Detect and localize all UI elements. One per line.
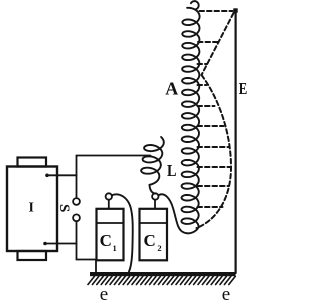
dashed amplitude line 2 <box>198 63 208 65</box>
dashed amplitude line 8 <box>198 185 229 187</box>
spark gap S upper ball <box>73 198 80 205</box>
label C2 <box>143 231 161 253</box>
terminal knob C1 <box>106 193 112 209</box>
svg-text:e: e <box>222 284 230 305</box>
dashed amplitude line 5 <box>198 125 224 127</box>
antenna wire E <box>235 12 237 273</box>
svg-text:C: C <box>143 231 155 250</box>
dashed amplitude line 1 <box>198 41 219 43</box>
earth plate <box>90 272 236 276</box>
spark gap S lower ball <box>73 214 80 221</box>
svg-text:C: C <box>100 231 112 250</box>
svg-text:S: S <box>56 204 72 212</box>
svg-text:e: e <box>100 284 108 305</box>
svg-text:A: A <box>165 79 178 99</box>
label C1 <box>100 231 117 253</box>
wire C2 knob to antenna coil bottom <box>159 194 199 233</box>
svg-text:2: 2 <box>157 243 161 253</box>
wire I top terminal to spark-gap lead <box>47 174 77 176</box>
dashed amplitude line 3 <box>198 84 207 86</box>
antenna coil A <box>181 1 199 227</box>
terminal dot I top <box>45 174 49 178</box>
terminal knob C2 <box>152 193 158 209</box>
dashed amplitude line 7 <box>198 166 232 168</box>
dashed amplitude line 4 <box>198 105 215 107</box>
induction coil I <box>7 158 57 261</box>
svg-text:I: I <box>29 200 34 215</box>
dashed amplitude line 9 <box>198 206 223 208</box>
wire spark gap to inductor L <box>77 155 151 157</box>
node: antenna top connection square <box>233 8 237 12</box>
wire I bottom terminal to spark-gap lead <box>45 243 77 245</box>
inductor L <box>141 137 164 185</box>
terminal dot I bottom <box>43 242 47 246</box>
wire upper spark-gap lead <box>76 156 78 199</box>
wire C1 knob to earth plate <box>112 194 133 271</box>
svg-text:E: E <box>239 79 248 98</box>
wire lower spark-gap lead to earth plate <box>77 221 97 272</box>
dashed potential envelope lower arc <box>197 75 232 228</box>
dashed line coil A top to antenna wire E <box>200 10 233 12</box>
earth hatching <box>88 276 235 284</box>
condenser C2 <box>140 209 168 260</box>
svg-text:1: 1 <box>112 243 116 253</box>
svg-text:L: L <box>167 161 177 180</box>
dashed amplitude line 6 <box>198 146 229 148</box>
condenser C1 <box>97 209 124 260</box>
wire L bottom to condenser C2 knob <box>150 185 156 194</box>
dashed potential envelope upper slant <box>202 13 234 75</box>
